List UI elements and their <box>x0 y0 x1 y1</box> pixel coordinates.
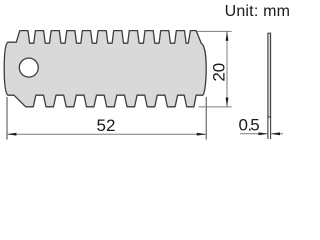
comb plate front view <box>4 31 206 107</box>
dim 20 extension lines <box>198 30 232 32</box>
dim 0.5 arrows <box>259 132 268 135</box>
hole <box>19 58 38 77</box>
dim 52 line <box>7 133 206 135</box>
svg-text:Unit: mm: Unit: mm <box>225 3 291 20</box>
dim 52 extension lines <box>6 97 8 140</box>
svg-text:5: 5 <box>250 116 259 135</box>
svg-text:20: 20 <box>210 63 229 82</box>
svg-text:52: 52 <box>97 116 116 135</box>
dim 20 arrows <box>226 31 229 40</box>
dim 20 line <box>226 31 228 107</box>
dim 52 arrows <box>7 133 16 136</box>
side view thin plate <box>268 33 271 117</box>
side view extension lines <box>267 117 269 139</box>
dim 0.5 lines <box>240 133 268 135</box>
